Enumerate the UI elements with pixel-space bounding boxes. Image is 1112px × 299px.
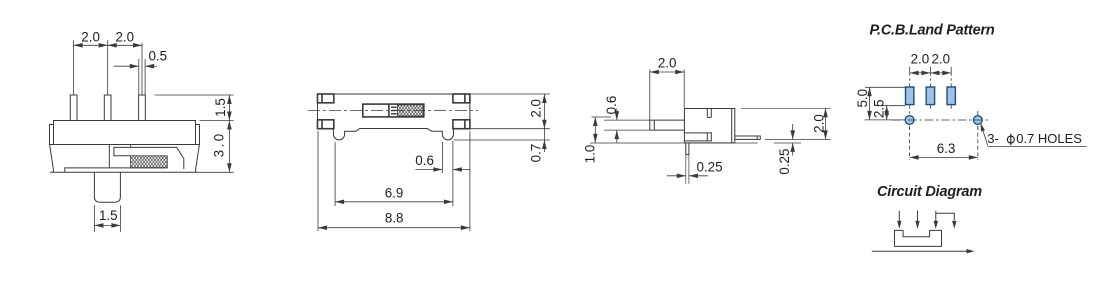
svg-text:0.6: 0.6	[604, 96, 619, 115]
svg-text:3.0: 3.0	[212, 131, 227, 157]
svg-text:3-: 3-	[987, 131, 999, 146]
svg-text:2.5: 2.5	[871, 99, 886, 118]
svg-text:2.0: 2.0	[658, 55, 677, 70]
svg-text:0.7 HOLES: 0.7 HOLES	[1016, 131, 1082, 146]
svg-text:2.0: 2.0	[931, 51, 950, 66]
svg-text:2.0: 2.0	[911, 51, 930, 66]
svg-text:2.0: 2.0	[115, 29, 134, 44]
svg-text:6.9: 6.9	[385, 186, 404, 201]
svg-text:6.3: 6.3	[937, 141, 956, 156]
svg-text:8.8: 8.8	[385, 211, 404, 226]
svg-text:0.5: 0.5	[148, 49, 167, 64]
svg-text:2.0: 2.0	[529, 99, 544, 118]
svg-text:0.7: 0.7	[529, 144, 544, 163]
svg-text:2.0: 2.0	[81, 29, 100, 44]
svg-text:5.0: 5.0	[855, 89, 870, 108]
svg-text:Circuit Diagram: Circuit Diagram	[877, 184, 982, 200]
svg-text:P.C.B.Land Pattern: P.C.B.Land Pattern	[870, 23, 995, 39]
svg-text:1.5: 1.5	[99, 208, 118, 223]
svg-text:2.0: 2.0	[812, 114, 827, 133]
svg-text:0.25: 0.25	[777, 149, 792, 175]
svg-text:0.25: 0.25	[697, 160, 723, 175]
svg-text:0.6: 0.6	[415, 153, 434, 168]
svg-text:1.5: 1.5	[213, 98, 228, 117]
svg-text:1.0: 1.0	[583, 145, 598, 164]
